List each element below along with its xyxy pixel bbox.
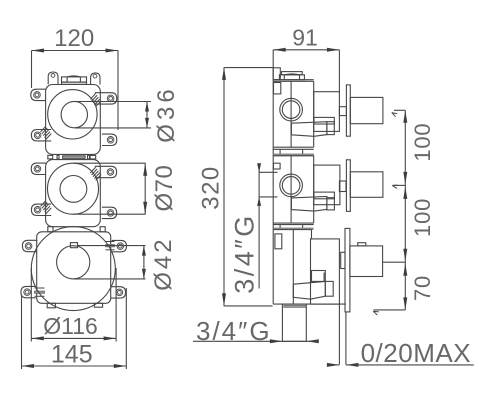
svg-text:3/4″G: 3/4″G (230, 213, 260, 294)
0/20MAX left leader (327, 364, 339, 366)
svg-text:100: 100 (410, 123, 435, 162)
wall reference line (flush) (338, 304, 340, 365)
svg-text:70: 70 (410, 275, 435, 301)
side top-left tower (273, 68, 280, 80)
3/4G tick top (port tangent) (259, 171, 277, 173)
threaded stub valve2 top-right (90, 167, 95, 173)
valve 3 spindle notch (70, 243, 77, 248)
side module 2 protruding stem (350, 172, 383, 198)
ø36 top tangent line (75, 101, 151, 103)
valve 3 outer circle (ø116) (31, 227, 115, 311)
svg-text:145: 145 (51, 340, 93, 368)
svg-text:91: 91 (292, 25, 318, 51)
mounting ear valve1 top-right (95, 93, 117, 104)
145 extension left (21, 295, 23, 369)
ø42 dimension line (143, 246, 145, 279)
valve 1 outer circle (48, 90, 97, 139)
side module 1 stem connector (339, 107, 346, 116)
145 extension right (125, 288, 127, 369)
svg-text:Ø116: Ø116 (43, 313, 98, 339)
junction module1-module2 (279, 149, 281, 154)
side module 1 left notch (274, 83, 281, 94)
leader arrow stem1 (392, 113, 397, 114)
mounting ear valve3 top-left (22, 240, 37, 251)
arrow t2 up (403, 186, 407, 199)
ø70 top tangent line (73, 162, 146, 164)
ø36 bottom tangent line (75, 127, 151, 129)
ø70 dimension line (144, 163, 146, 214)
3/4G tick bottom (port tangent) (259, 196, 277, 198)
3/4G leader line (258, 164, 260, 289)
svg-text:Ø70: Ø70 (151, 165, 178, 212)
ø36 dimension line (146, 102, 148, 128)
valve 2 inner circle (60, 176, 87, 203)
valve body 1 (46, 85, 101, 155)
extension line 120 left (31, 51, 33, 89)
side body bottom edge (273, 303, 346, 305)
ø70 bottom tangent line (73, 213, 146, 215)
arrow t3 up (403, 263, 407, 276)
320 top extension line (224, 67, 273, 69)
valve body 2 (46, 160, 101, 227)
mounting ear valve1 top-left (31, 89, 46, 100)
side module 1 body (273, 79, 314, 81)
dimension 91 (side width) (273, 49, 339, 51)
svg-text:120: 120 (54, 25, 94, 52)
side module 3 left notch (275, 234, 282, 249)
threaded stub valve1 top-right (90, 93, 95, 99)
top mounting tab left (valve 1) (48, 72, 58, 85)
threaded stub valve3 bottom-left (35, 287, 45, 289)
extension line 91 left (272, 50, 274, 68)
arrow t3 down (403, 249, 407, 262)
extension line 120 right (117, 51, 119, 131)
top mounting tab right (valve 1) (91, 73, 100, 85)
leader arrow stem2 (392, 184, 398, 186)
leader arrow bottom (373, 310, 379, 313)
mounting ear valve2 bottom-right (102, 207, 117, 218)
svg-text:Ø42: Ø42 (150, 236, 177, 290)
svg-text:0/20MAX: 0/20MAX (361, 338, 471, 368)
ø116 extension left (30, 268, 32, 342)
side module 3 body (273, 229, 311, 231)
bottom outlet pipe (3/4"G) (282, 304, 306, 341)
mounting ear valve3 bottom-right (111, 287, 126, 298)
extension line 91 right (338, 50, 340, 92)
mounting ear valve3 top-right (112, 240, 127, 251)
svg-text:320: 320 (198, 165, 225, 210)
side body left edge (272, 67, 274, 304)
side module 2 left notch (274, 163, 281, 169)
side module 1 rear block (314, 92, 340, 132)
side module 2 body (273, 155, 314, 157)
side module 3 stem connector (341, 252, 345, 268)
side module 1 wall flange plate (346, 85, 350, 136)
side module 3 cartridge step (312, 271, 326, 282)
junction band valve2-valve3 (48, 227, 53, 232)
leader bottom reference (374, 309, 406, 311)
wall reference line (20mm) (345, 312, 347, 365)
junction module2-module3 (279, 225, 281, 228)
right chain dimension line (404, 110, 406, 310)
mounting ear valve3 bottom-left (21, 286, 36, 297)
side module 1 port circle (280, 98, 303, 121)
3/4G right tail (306, 340, 317, 342)
side module 2 rear block (314, 165, 340, 205)
mounting ear valve1 bottom-right (102, 134, 117, 145)
side module 3 protruding stem (350, 246, 383, 277)
arrow t2 down (403, 172, 407, 185)
mounting ear valve1 bottom-left (31, 130, 51, 141)
320 dimension line (223, 67, 225, 306)
320 bottom extension line (224, 305, 273, 307)
mounting ear valve2 bottom-left (31, 204, 51, 215)
side module 3 rear block (311, 239, 340, 304)
ø116 extension right (115, 268, 117, 342)
3/4G underline + leader (193, 340, 282, 342)
stem 3 top tab (358, 243, 366, 246)
ø42 top tangent line (78, 245, 146, 247)
side module 2 lever (314, 192, 334, 199)
valve 3 inner circle (ø42) (57, 246, 90, 279)
valve 1 top cap (62, 77, 87, 82)
junction band valve1-valve2 (48, 155, 53, 159)
mounting ear valve2 top-right (95, 166, 117, 177)
threaded stub valve3 top-right (106, 241, 115, 243)
bottom cap tabs (valve 3) (47, 303, 55, 308)
side module 3 wall flange plate (345, 228, 350, 312)
arrow t4 down (403, 297, 407, 310)
ø116 dimension line (31, 337, 116, 339)
145 dimension line (22, 365, 127, 367)
threaded stub valve1 bottom-left (41, 126, 46, 132)
side module 3 lever (293, 281, 325, 299)
dimension 120 (top width) (32, 50, 119, 52)
mounting ear valve2 top-left (31, 163, 46, 174)
leader stem3 (383, 261, 406, 263)
valve 2 outer circle (ø70) (48, 163, 99, 214)
svg-text:100: 100 (410, 198, 435, 237)
threaded stub valve2 bottom-left (41, 201, 46, 207)
side module 2 wall flange plate (346, 160, 350, 212)
side module 2 stem connector (339, 181, 346, 192)
arrow t1 up (403, 110, 407, 123)
leader stem1 (394, 109, 405, 111)
ø42 bottom tangent line (73, 278, 145, 280)
0/20MAX underline (346, 364, 474, 366)
side module 1 protruding stem (350, 97, 383, 123)
outlet pipe bottom edge (282, 340, 306, 342)
side module 2 port circle (280, 174, 303, 197)
valve 1 inner circle (ø36) (61, 101, 87, 127)
svg-text:3/4″G: 3/4″G (196, 316, 272, 346)
side module 1 lever (314, 117, 334, 124)
valve body 3 (diverter) (37, 232, 111, 303)
module 1 top cap (282, 72, 303, 75)
leader stem2 (394, 184, 405, 186)
svg-text:Ø36: Ø36 (153, 85, 180, 142)
